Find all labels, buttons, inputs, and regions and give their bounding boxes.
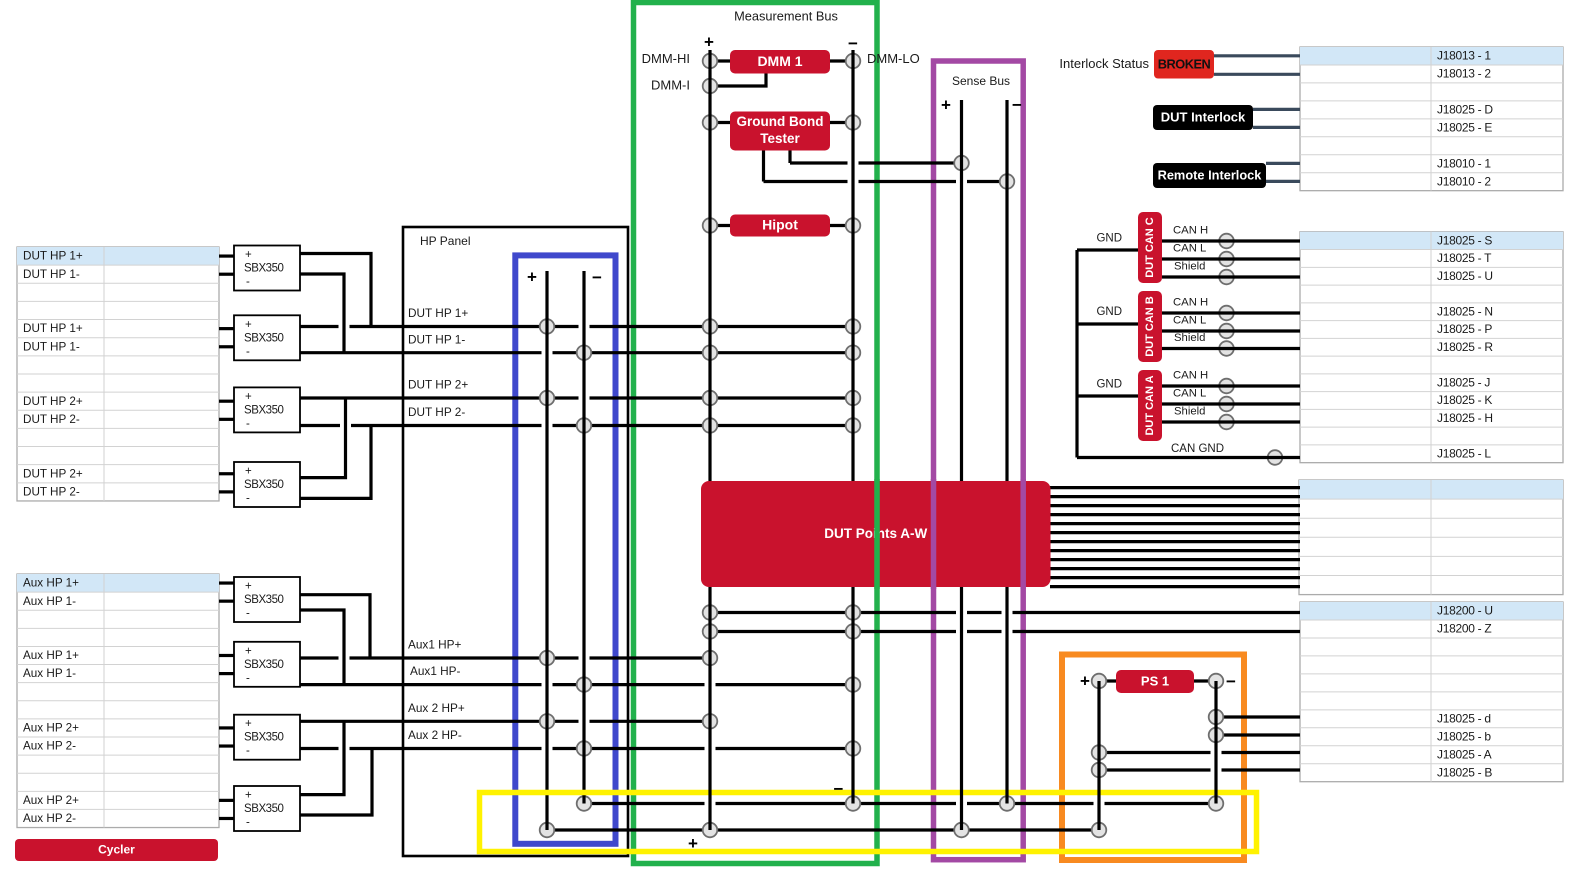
label CAN H C xyxy=(1173,224,1208,236)
svg-text:SBX350: SBX350 xyxy=(244,263,284,275)
PS + vertical xyxy=(1097,681,1100,830)
sense - label xyxy=(1012,95,1022,114)
svg-text:-: - xyxy=(246,745,250,757)
wire DUT HP 2- row xyxy=(300,424,853,427)
svg-text:DUT HP 1-: DUT HP 1- xyxy=(408,332,465,346)
svg-text:J18025 - A: J18025 - A xyxy=(1437,747,1492,761)
svg-text:HP Panel: HP Panel xyxy=(420,234,470,248)
svg-text:DMM 1: DMM 1 xyxy=(757,53,802,69)
wire CAN GND xyxy=(1077,456,1300,459)
DUT CAN A block xyxy=(1138,370,1162,441)
measurement bus - vertical xyxy=(851,50,854,804)
CAN junction dots xyxy=(1219,234,1282,465)
svg-text:J18025 - S: J18025 - S xyxy=(1437,233,1492,247)
wire J18025-B row xyxy=(1099,768,1300,771)
purple frame segment over DUT Points (left) xyxy=(931,479,937,589)
blue bus + label xyxy=(527,267,537,286)
svg-text:DUT CAN A: DUT CAN A xyxy=(1144,375,1156,435)
svg-text:J18025 - T: J18025 - T xyxy=(1437,251,1492,265)
wire remote interlock to J18010-2 xyxy=(1266,180,1300,183)
svg-text:SBX350: SBX350 xyxy=(244,594,284,606)
HP Panel outline xyxy=(403,227,628,856)
wire table to SBX350 5 inputs xyxy=(219,583,234,601)
svg-text:CAN L: CAN L xyxy=(1173,387,1206,399)
svg-text:+: + xyxy=(941,95,951,114)
svg-text:Ground Bond: Ground Bond xyxy=(737,114,824,129)
PS - label xyxy=(1226,672,1236,691)
wire GBT right xyxy=(824,121,853,124)
svg-text:DUT HP 2-: DUT HP 2- xyxy=(408,405,465,419)
svg-text:GND: GND xyxy=(1096,306,1122,318)
svg-text:DUT HP 2-: DUT HP 2- xyxy=(23,485,80,498)
svg-text:CAN H: CAN H xyxy=(1173,296,1208,308)
DMM-HI label xyxy=(642,51,690,66)
Measurement Bus label xyxy=(734,8,838,23)
wire DMM-LO xyxy=(824,59,853,62)
measurement - label xyxy=(848,34,858,53)
svg-text:-: - xyxy=(246,418,250,430)
purple Sense Bus frame xyxy=(934,61,1024,860)
svg-text:GND: GND xyxy=(1096,233,1122,245)
svg-text:+: + xyxy=(245,466,252,478)
SBX350 box 6 xyxy=(234,642,300,687)
wire CAN H A xyxy=(1162,384,1300,387)
svg-text:Shield: Shield xyxy=(1174,260,1205,272)
SBX350 box 5 xyxy=(234,577,300,622)
svg-text:+: + xyxy=(527,267,537,286)
svg-text:-: - xyxy=(246,493,250,505)
label Aux1 HP+ xyxy=(408,638,462,652)
svg-text:GND: GND xyxy=(1096,379,1122,391)
wire table to SBX350 2 inputs xyxy=(219,329,234,347)
wire J18025-d row xyxy=(1216,715,1300,718)
wire bottom - bus xyxy=(585,802,1216,805)
label Aux1 HP- xyxy=(410,664,461,678)
svg-text:BROKEN: BROKEN xyxy=(1158,56,1211,71)
svg-text:Aux1 HP+: Aux1 HP+ xyxy=(408,638,462,652)
Interlock Status label xyxy=(1059,56,1149,71)
svg-text:Aux 2 HP+: Aux 2 HP+ xyxy=(408,701,465,715)
wire SBX1 + output xyxy=(300,254,371,327)
label DUT HP 1+ xyxy=(408,306,468,320)
svg-text:J18025 - K: J18025 - K xyxy=(1437,393,1492,407)
svg-text:SBX350: SBX350 xyxy=(244,479,284,491)
svg-text:+: + xyxy=(245,790,252,802)
svg-text:SBX350: SBX350 xyxy=(244,659,284,671)
svg-text:Remote Interlock: Remote Interlock xyxy=(1158,167,1263,182)
sense bus - vertical xyxy=(1005,100,1008,804)
label DUT HP 2+ xyxy=(408,378,468,392)
label CAN H B xyxy=(1173,296,1208,308)
DUT CAN C block xyxy=(1138,212,1162,283)
svg-text:J18010 - 2: J18010 - 2 xyxy=(1437,174,1491,188)
wire GND to DUT CAN B xyxy=(1077,322,1138,325)
svg-text:Aux HP 1+: Aux HP 1+ xyxy=(23,577,79,590)
Cycler button xyxy=(15,839,218,861)
wire DUT interlock to J18025-E xyxy=(1253,126,1300,129)
label CAN H A xyxy=(1173,369,1208,381)
Ground Bond Tester block xyxy=(730,112,830,151)
PS 1 block xyxy=(1116,670,1194,693)
wire Aux 2 HP- row xyxy=(300,747,853,750)
wire PS1 right xyxy=(1194,679,1216,682)
svg-text:-: - xyxy=(246,672,250,684)
svg-text:J18025 - E: J18025 - E xyxy=(1437,120,1492,134)
Remote Interlock box xyxy=(1153,163,1266,188)
Sense Bus label xyxy=(952,74,1010,88)
svg-text:Measurement Bus: Measurement Bus xyxy=(734,8,838,23)
wire table to SBX350 8 inputs xyxy=(219,800,234,818)
svg-text:Shield: Shield xyxy=(1174,405,1205,417)
label CAN L B xyxy=(1173,314,1206,326)
left connector table DUT HP xyxy=(17,247,219,501)
svg-text:DUT HP 2+: DUT HP 2+ xyxy=(23,395,83,408)
wire Aux1 HP+ row xyxy=(300,656,710,659)
blue HP bus frame xyxy=(515,255,615,843)
svg-text:Sense Bus: Sense Bus xyxy=(952,74,1010,88)
svg-text:-: - xyxy=(246,346,250,358)
wire CAN L B xyxy=(1162,329,1300,332)
label DUT HP 2- xyxy=(408,405,465,419)
blue bus - vertical xyxy=(582,271,585,804)
wire Shield A xyxy=(1162,420,1300,423)
label CAN L A xyxy=(1173,387,1206,399)
svg-text:DUT HP 1-: DUT HP 1- xyxy=(23,340,80,353)
wire Hipot right xyxy=(824,224,853,227)
bottom + label xyxy=(688,834,698,853)
svg-text:−: − xyxy=(1226,672,1236,691)
svg-text:DMM-HI: DMM-HI xyxy=(642,51,690,66)
wire BROKEN to J18013-1 xyxy=(1214,54,1300,57)
svg-text:DUT HP 1+: DUT HP 1+ xyxy=(23,250,83,263)
svg-text:DUT HP 2-: DUT HP 2- xyxy=(23,413,80,426)
wire SBX4 - output xyxy=(300,426,371,499)
label CAN L C xyxy=(1173,242,1206,254)
wire DUT HP 2+ row xyxy=(300,396,853,399)
wire table to SBX350 3 inputs xyxy=(219,401,234,419)
measurement + label xyxy=(704,32,714,51)
right connector table J18025 CAN xyxy=(1300,232,1563,463)
svg-text:+: + xyxy=(245,718,252,730)
wire CAN L A xyxy=(1162,402,1300,405)
svg-text:Aux 2 HP-: Aux 2 HP- xyxy=(408,728,462,742)
svg-text:Tester: Tester xyxy=(760,131,800,146)
wire DMM-I xyxy=(710,72,766,86)
svg-text:Interlock Status: Interlock Status xyxy=(1059,56,1149,71)
purple frame segment over DUT Points (right) xyxy=(1020,479,1026,589)
svg-text:Aux HP 2-: Aux HP 2- xyxy=(23,812,76,825)
wire Aux1 HP- row xyxy=(300,683,853,686)
svg-text:+: + xyxy=(245,645,252,657)
SBX350 box 8 xyxy=(234,786,300,831)
wire table to SBX350 1 inputs xyxy=(219,256,234,274)
svg-text:DUT Interlock: DUT Interlock xyxy=(1161,109,1246,124)
svg-text:SBX350: SBX350 xyxy=(244,732,284,744)
wire Shield C xyxy=(1162,275,1300,278)
blue bus + vertical xyxy=(545,271,548,830)
wire SBX1 - output xyxy=(300,274,344,353)
SBX350 box 4 xyxy=(234,462,300,507)
wire J18200-Z row xyxy=(710,630,1300,633)
svg-text:CAN H: CAN H xyxy=(1173,369,1208,381)
wire table to SBX350 6 inputs xyxy=(219,655,234,673)
label Shield A xyxy=(1174,405,1205,417)
svg-text:CAN GND: CAN GND xyxy=(1171,443,1224,455)
svg-text:J18025 - P: J18025 - P xyxy=(1437,322,1492,336)
wire GND to DUT CAN A xyxy=(1077,394,1138,397)
svg-text:PS 1: PS 1 xyxy=(1141,673,1169,688)
svg-text:Aux HP 1-: Aux HP 1- xyxy=(23,595,76,608)
bottom - label xyxy=(834,779,844,798)
svg-text:DUT CAN C: DUT CAN C xyxy=(1144,217,1156,278)
wire table to SBX350 4 inputs xyxy=(219,474,234,492)
svg-text:+: + xyxy=(704,32,714,51)
sense + label xyxy=(941,95,951,114)
wire Hipot left xyxy=(710,224,736,227)
label Shield B xyxy=(1174,332,1205,344)
wire SBX4 + output xyxy=(300,398,346,478)
svg-text:J18025 - B: J18025 - B xyxy=(1437,765,1492,779)
BROKEN status box xyxy=(1154,50,1214,79)
orange PS frame xyxy=(1062,655,1244,861)
sense bus + vertical xyxy=(960,100,963,830)
svg-text:+: + xyxy=(245,249,252,261)
svg-text:Aux1 HP-: Aux1 HP- xyxy=(410,664,461,678)
right connector table J18013/J18025/J18010 xyxy=(1300,47,1563,191)
svg-text:J18025 - D: J18025 - D xyxy=(1437,103,1493,117)
svg-text:−: − xyxy=(848,34,858,53)
svg-text:Aux HP 1-: Aux HP 1- xyxy=(23,667,76,680)
yellow bottom bus frame xyxy=(480,793,1257,852)
svg-text:J18025 - H: J18025 - H xyxy=(1437,411,1493,425)
wire GBT sense+ xyxy=(790,151,962,164)
wire J18025-A row xyxy=(1099,751,1300,754)
right connector table J18200/J18025 xyxy=(1300,602,1563,782)
GND label B xyxy=(1096,306,1122,318)
wire CAN H B xyxy=(1162,311,1300,314)
DUT CAN B block xyxy=(1138,291,1162,362)
wire GBT sense- xyxy=(764,151,1008,182)
wire SBX8 + output xyxy=(300,721,344,794)
SBX350 box 3 xyxy=(234,387,300,432)
wire Aux 2 HP+ row xyxy=(300,720,710,723)
svg-text:J18025 - N: J18025 - N xyxy=(1437,304,1493,318)
SBX350 box 7 xyxy=(234,715,300,760)
wires DUT points to table xyxy=(1050,488,1300,587)
measurement bus + vertical xyxy=(708,50,711,830)
svg-text:SBX350: SBX350 xyxy=(244,404,284,416)
HP Panel label xyxy=(420,234,470,248)
wire DUT interlock to J18025-D xyxy=(1253,108,1300,111)
svg-text:J18025 - U: J18025 - U xyxy=(1437,269,1493,283)
wire bottom + bus xyxy=(547,828,1099,831)
svg-text:+: + xyxy=(688,834,698,853)
label DUT HP 1- xyxy=(408,332,465,346)
svg-text:Aux HP 1+: Aux HP 1+ xyxy=(23,649,79,662)
svg-text:+: + xyxy=(245,581,252,593)
svg-text:−: − xyxy=(834,779,844,798)
svg-text:Aux HP 2-: Aux HP 2- xyxy=(23,740,76,753)
Hipot block xyxy=(730,215,830,237)
svg-text:+: + xyxy=(1080,671,1090,690)
wire CAN H C xyxy=(1162,239,1300,242)
GND label A xyxy=(1096,379,1122,391)
svg-text:Cycler: Cycler xyxy=(98,843,135,857)
svg-text:+: + xyxy=(245,319,252,331)
svg-text:J18010 - 1: J18010 - 1 xyxy=(1437,156,1491,170)
wire SBX8 - output xyxy=(300,749,372,816)
svg-text:DUT HP 1+: DUT HP 1+ xyxy=(23,322,83,335)
DUT Interlock box xyxy=(1153,105,1253,130)
wire CAN L C xyxy=(1162,257,1300,260)
wire J18025-b row xyxy=(1216,733,1300,736)
svg-text:SBX350: SBX350 xyxy=(244,332,284,344)
wire PS1 left xyxy=(1099,679,1116,682)
wire Shield B xyxy=(1162,347,1300,350)
svg-text:CAN H: CAN H xyxy=(1173,224,1208,236)
svg-text:CAN L: CAN L xyxy=(1173,314,1206,326)
svg-text:DUT HP 1+: DUT HP 1+ xyxy=(408,306,468,320)
svg-text:−: − xyxy=(1012,95,1022,114)
svg-text:DUT HP 2+: DUT HP 2+ xyxy=(408,378,468,392)
SBX350 box 2 xyxy=(234,315,300,360)
DMM 1 block xyxy=(730,50,830,74)
wire DUT HP 1- row xyxy=(300,351,853,354)
wire DUT HP 1+ row xyxy=(300,325,853,328)
wire BROKEN to J18013-2 xyxy=(1214,73,1300,76)
label Shield C xyxy=(1174,260,1205,272)
svg-text:DUT HP 2+: DUT HP 2+ xyxy=(23,467,83,480)
wire table to SBX350 7 inputs xyxy=(219,728,234,746)
wire SBX5 + output xyxy=(300,595,370,658)
svg-text:Aux HP 2+: Aux HP 2+ xyxy=(23,722,79,735)
svg-text:J18025 - R: J18025 - R xyxy=(1437,340,1493,354)
green Measurement Bus frame xyxy=(634,3,878,864)
PS - vertical xyxy=(1214,681,1217,804)
DUT Points A-W block xyxy=(701,481,1051,587)
wire SBX5 - output xyxy=(300,610,344,685)
svg-text:DMM-I: DMM-I xyxy=(651,77,690,92)
svg-text:J18013 - 1: J18013 - 1 xyxy=(1437,49,1491,63)
svg-text:J18025 - J: J18025 - J xyxy=(1437,375,1490,389)
GND label C xyxy=(1096,233,1122,245)
DMM-I label xyxy=(651,77,690,92)
svg-text:J18200 - Z: J18200 - Z xyxy=(1437,622,1491,636)
right connector table DUT points (blank) xyxy=(1299,480,1563,595)
svg-text:CAN L: CAN L xyxy=(1173,242,1206,254)
svg-text:-: - xyxy=(246,608,250,620)
left connector table Aux HP xyxy=(17,574,219,828)
svg-text:SBX350: SBX350 xyxy=(244,803,284,815)
PS + label xyxy=(1080,671,1090,690)
green frame segment over DUT Points xyxy=(874,479,880,589)
svg-text:-: - xyxy=(246,276,250,288)
svg-text:J18025 - d: J18025 - d xyxy=(1437,711,1491,725)
svg-text:J18025 - L: J18025 - L xyxy=(1437,446,1491,460)
wire remote interlock to J18010-1 xyxy=(1266,162,1300,165)
svg-text:Shield: Shield xyxy=(1174,332,1205,344)
CAN GND label xyxy=(1171,443,1224,455)
junction circles xyxy=(540,54,1224,838)
wire GBT left xyxy=(710,121,736,124)
wire J18200-U row xyxy=(710,611,1300,614)
svg-text:J18025 - b: J18025 - b xyxy=(1437,729,1491,743)
svg-text:−: − xyxy=(592,268,602,287)
svg-text:Hipot: Hipot xyxy=(762,217,798,233)
svg-text:DUT CAN B: DUT CAN B xyxy=(1144,296,1156,357)
svg-text:Aux HP 2+: Aux HP 2+ xyxy=(23,794,79,807)
label Aux 2 HP+ xyxy=(408,701,465,715)
svg-text:J18200 - U: J18200 - U xyxy=(1437,604,1493,618)
svg-text:-: - xyxy=(246,817,250,829)
wire DMM-HI xyxy=(710,59,736,62)
blue bus - label xyxy=(592,268,602,287)
CAN GND bus vertical xyxy=(1075,250,1078,458)
svg-text:J18013 - 2: J18013 - 2 xyxy=(1437,67,1491,81)
DMM-LO label xyxy=(867,51,920,66)
label Aux 2 HP- xyxy=(408,728,462,742)
svg-text:+: + xyxy=(245,391,252,403)
svg-text:DUT HP 1-: DUT HP 1- xyxy=(23,268,80,281)
SBX350 box 1 xyxy=(234,246,300,291)
svg-text:DMM-LO: DMM-LO xyxy=(867,51,920,66)
wire GND to DUT CAN C xyxy=(1077,248,1138,251)
